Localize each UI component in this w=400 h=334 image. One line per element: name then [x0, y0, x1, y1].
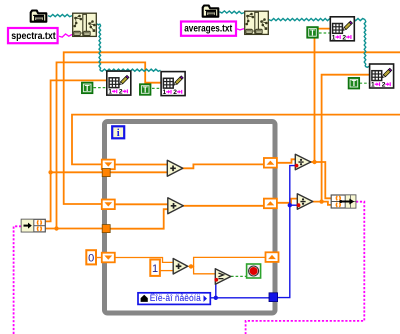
local variable (Kol-vo sekund) — [138, 293, 210, 305]
increment add function — [173, 259, 188, 275]
coercion dot divide2 — [297, 203, 301, 207]
wire: boolean T2a to Write B — [152, 87, 161, 89]
wire: spectra.txt string to Build Path 1 — [59, 34, 72, 37]
svg-text:T: T — [310, 28, 315, 37]
wire: averages.txt string to Build Path 2 — [236, 29, 244, 30]
svg-text:averages.txt: averages.txt — [184, 23, 232, 35]
junction blue divide2 — [288, 203, 292, 207]
svg-text:1: 1 — [152, 263, 158, 275]
wire: increment add output down to greater-equal upper input — [194, 266, 216, 273]
Write To Spreadsheet File VI 2 (right) — [370, 64, 394, 89]
Build Path VI 1 — [73, 13, 97, 36]
numeric constant 0 — [86, 250, 96, 265]
wire: boolean T2b to Write 2 — [360, 82, 370, 84]
junction divide1 output — [312, 160, 316, 164]
svg-text:T: T — [85, 84, 90, 93]
boolean constant T (Write A) — [82, 82, 93, 93]
junction node-upper/tunnel1 — [48, 170, 52, 174]
wire: tunnel2 to add2 lower input — [110, 209, 169, 229]
Write To Spreadsheet File VI A — [107, 71, 131, 96]
svg-text:1: 1 — [163, 89, 167, 96]
tunnel solid 2 (left border, row tunnel2) — [102, 225, 110, 233]
shift register left 1 — [102, 160, 115, 170]
wire: SR1 row inside loop to add1 — [115, 164, 168, 166]
svg-text:1: 1 — [371, 82, 375, 89]
wire W1: divide output bus to SR2 (horiz y=52.3 + vert x=63.7) — [64, 52, 400, 204]
divide function 2 — [297, 194, 313, 210]
svg-text:2: 2 — [173, 89, 177, 96]
Write To Spreadsheet File VI 1 (top right) — [330, 17, 354, 42]
svg-text:0: 0 — [88, 253, 94, 265]
shift register right 3 — [266, 252, 279, 262]
wire: right tunnel1 to divide1 — [276, 159, 296, 163]
tunnel blue (bottom right) — [269, 293, 278, 302]
svg-text:2: 2 — [382, 82, 386, 89]
wire: SR2 row inside loop to add2 — [115, 203, 169, 205]
wire: Build Path 1 output down and across to Write icons A and B — [97, 24, 100, 25]
svg-text:i: i — [117, 128, 120, 139]
Write To Spreadsheet File VI B — [161, 72, 185, 97]
wire: divide1 output right into interleave node upper input — [315, 162, 333, 198]
svg-text:1: 1 — [332, 34, 336, 41]
while loop border — [105, 122, 276, 314]
junction node-lower/tunnel2 — [54, 226, 58, 230]
svg-text:2: 2 — [342, 34, 346, 41]
divide function 1 — [295, 154, 311, 170]
shift register left 2 — [102, 200, 115, 210]
Build Path VI 2 — [245, 11, 269, 34]
wire: divide2 output up to Write icon2 — [313, 75, 370, 202]
coercion dot greater-equal — [214, 278, 218, 282]
boolean constant T (Write B) — [140, 84, 151, 95]
shift register left 3 — [102, 253, 115, 263]
greater-or-equal function — [215, 269, 231, 285]
interleave arrays node — [331, 195, 356, 208]
wire: blue tunnel out to divide lower inputs — [277, 166, 296, 298]
wire: boolean T1a to Write A — [94, 87, 107, 89]
wire: 1 constant to increment add — [160, 270, 174, 272]
coercion dot divide1 — [295, 164, 299, 168]
wire W3: node upper output up to Write icon A, junction feeds tunnel1 — [45, 80, 106, 221]
boolean constant T (Write 1) — [307, 27, 318, 38]
junction increment output — [189, 264, 193, 268]
wire: folder1 to Build Path 1 (path, zigzag) — [48, 15, 72, 17]
folder icon (averages) — [203, 6, 219, 17]
wire: SR3 to increment add — [115, 258, 174, 263]
svg-text:T: T — [143, 86, 148, 95]
wire: boolean T1b to Write 1 — [319, 32, 330, 34]
folder icon (spectra) — [31, 11, 47, 22]
wire: add1 output to right tunnel1 — [182, 164, 265, 168]
svg-text:T: T — [351, 79, 356, 88]
wire W2: node lower output up to Write icon B — [57, 62, 161, 228]
wire: Build Path 2 output across to Write icon1 and down to Write icon2 — [269, 19, 365, 21]
iteration terminal i — [112, 126, 124, 139]
numeric constant 1 — [150, 260, 160, 276]
wire W5: node lower output to left tunnel2 — [45, 228, 104, 230]
junction divide2 output — [319, 199, 323, 203]
loop condition stop terminal — [247, 264, 261, 278]
wire: 0 constant to SR3 — [96, 257, 103, 259]
wire: divide2 output into interleave node lower input — [322, 202, 332, 205]
boolean constant T (Write 2) — [348, 78, 359, 89]
wire: increment add output to right SR3 — [187, 257, 267, 266]
svg-text:1: 1 — [108, 89, 112, 96]
wire: local variable to blue tunnel — [210, 297, 270, 299]
tunnel solid 1 (left border, row A) — [102, 169, 110, 177]
add function 2 — [168, 198, 184, 214]
svg-text:2: 2 — [119, 89, 123, 96]
add function 1 — [167, 160, 183, 176]
wire W4: top bus to SR1 (horiz y=114.6 + vert x=72) — [72, 115, 400, 165]
wire: interleave node output dotted loop-around (right, bottom, left, into index node) — [246, 202, 365, 334]
wire: add2 output to right tunnel2 — [183, 205, 265, 207]
svg-text:Êîë-âî ñåêóíä: Êîë-âî ñåêóíä — [150, 293, 201, 303]
string constant spectra.txt — [8, 28, 58, 43]
wire: folder2 to Build Path 2 (path, zigzag) — [220, 11, 245, 14]
shift register right 2 — [264, 199, 277, 209]
wire: greater-equal output to stop terminal — [231, 275, 247, 277]
wire: divide1 output up to Write icon1 (passes behind T) — [311, 29, 330, 162]
string constant averages.txt — [181, 22, 236, 36]
wire: right tunnel2 to divide2 — [276, 199, 298, 203]
svg-text:spectra.txt: spectra.txt — [11, 30, 56, 42]
index/convert node (left, arrow with two outputs) — [21, 219, 45, 232]
shift register right 1 — [264, 158, 277, 168]
junction blue local var — [214, 296, 218, 300]
wire: blue branch up to greater-equal lower input — [216, 280, 217, 298]
